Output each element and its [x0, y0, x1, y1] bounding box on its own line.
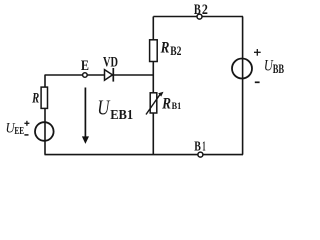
node B2	[194, 2, 208, 19]
svg-text:B2: B2	[170, 44, 181, 58]
resistor RB1 (variable)	[146, 92, 182, 115]
resistor RB2	[150, 40, 182, 62]
node B1	[194, 138, 205, 157]
svg-text:1: 1	[202, 138, 206, 153]
wire left vertical	[44, 75, 46, 155]
wire bottom rail B1	[45, 154, 244, 156]
svg-text:R: R	[31, 91, 39, 107]
diode VD	[103, 55, 118, 82]
svg-text:VD: VD	[103, 55, 118, 71]
resistor R	[31, 87, 47, 108]
source UEE	[6, 121, 54, 141]
svg-text:B: B	[194, 138, 201, 153]
svg-text:B1: B1	[172, 101, 182, 111]
svg-text:B: B	[194, 2, 201, 18]
svg-text:R: R	[160, 40, 170, 57]
arrow UEB1	[82, 88, 133, 144]
wire top rail B2	[153, 16, 243, 18]
svg-text:U: U	[97, 96, 110, 120]
svg-text:R: R	[161, 96, 171, 113]
svg-text:2: 2	[202, 2, 208, 18]
svg-text:EE: EE	[14, 126, 24, 137]
wire right vertical	[242, 17, 244, 155]
wire emitter horizontal	[45, 74, 155, 76]
wire middle vertical	[152, 17, 154, 155]
source UBB	[232, 49, 284, 82]
node E	[81, 58, 89, 77]
svg-text:BB: BB	[273, 62, 284, 76]
svg-text:E: E	[81, 58, 89, 74]
svg-text:EB1: EB1	[110, 107, 133, 122]
